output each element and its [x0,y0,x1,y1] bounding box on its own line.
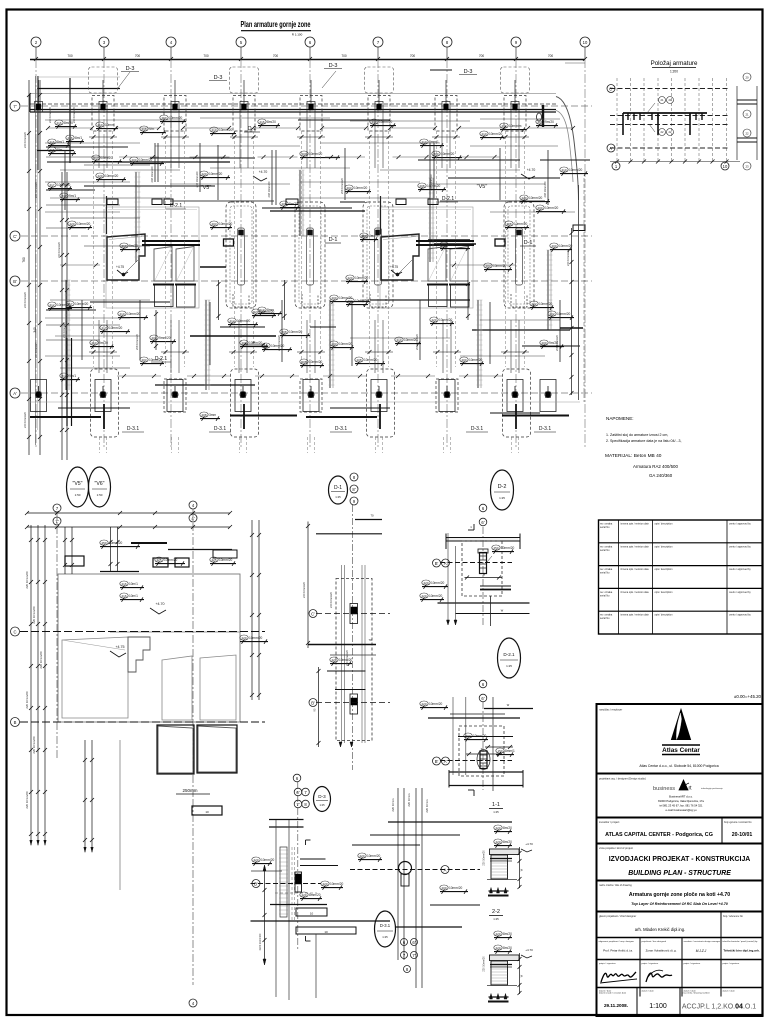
svg-text:opis / description: opis / description [655,568,674,571]
svg-text:1:25: 1:25 [335,495,341,499]
svg-text:10mm/20: 10mm/20 [57,303,71,307]
svg-text:Plan armature gornje zone: Plan armature gornje zone [241,19,311,29]
svg-text:8m/20: 8m/20 [267,120,276,124]
svg-text:overio / approved by: overio / approved by [729,523,751,526]
svg-text:208 10mm/20: 208 10mm/20 [195,171,199,187]
svg-text:odgovorni projektant / resp. d: odgovorni projektant / resp. designer [599,940,635,943]
svg-text:1-1: 1-1 [492,802,500,808]
D-2.1 axis dash horizontal [440,760,512,762]
rebar callout 202 10mm/20 [548,311,556,316]
rebar callout 220 10mm/20 [520,195,528,200]
svg-text:208 10mm/20: 208 10mm/20 [267,181,271,197]
vertical rebar strip h [299,170,301,236]
D-3 detail circle [314,787,331,812]
svg-text:IZVODJACKI PROJEKAT - KONSTRUK: IZVODJACKI PROJEKAT - KONSTRUKCIJA [609,856,751,863]
svg-text:10mm/20: 10mm/20 [219,222,233,226]
svg-text:B: B [14,720,17,725]
svg-text:8m/20: 8m/20 [503,932,512,936]
vs detail small rects top [65,556,84,566]
svg-text:10: 10 [310,912,314,916]
rebar callout 200 10mm/20 [536,205,544,210]
svg-text:glavni projektant / chief desi: glavni projektant / chief designer [599,914,636,918]
rebar callout 217 10mm/20 [48,182,56,187]
svg-text:"V5": "V5" [72,481,82,487]
svg-text:220 10mm/20: 220 10mm/20 [57,242,61,258]
bottom row capitals dashed [91,369,119,437]
vertical rebar bars with rotated labels [154,143,156,182]
rebar callout 210 10mm/20 [370,119,378,124]
D-3 axis dash horizontal [251,883,322,885]
D-3 rect w label [296,908,327,916]
svg-text:Atlas Centar: Atlas Centar [662,747,700,754]
D-3.1 keyhole column [399,862,412,875]
svg-text:29.11.2008.: 29.11.2008. [604,1003,628,1008]
D-1 left axis circles [309,610,317,618]
D-3 vertical dim line [264,866,266,964]
vs detail axis circle 4 top [189,501,197,509]
D-3 hatched bar [280,847,287,917]
rebar callout 200 10mm/20 [130,157,138,162]
D-3 axis circle D' [252,880,260,888]
svg-text:NAPOMENE:: NAPOMENE: [606,416,634,421]
D-1 detail axis line vertical [352,505,354,770]
svg-text:220 10mm/20: 220 10mm/20 [23,292,27,308]
svg-text:1:25: 1:25 [319,803,325,807]
polozaj position circles top [659,97,666,104]
svg-text:D-3: D-3 [329,63,338,69]
rebar callout 206 10mm/20 [262,343,270,348]
svg-text:D': D' [254,881,258,886]
svg-text:10: 10 [723,164,728,169]
svg-text:10mm/20: 10mm/20 [539,302,553,306]
svg-text:1:25: 1:25 [499,496,505,500]
D-3 section cut mark bottom [306,940,311,942]
left axis circle 7' [10,101,20,111]
svg-text:220 10mm/20: 220 10mm/20 [345,650,349,666]
svg-text:tehnička kontrola / proof (con: tehnička kontrola / proof (control) by [723,940,759,943]
svg-text:8m/1: 8m/1 [57,140,64,144]
svg-text:23: 23 [745,164,749,168]
stair lower rect B left [177,285,196,308]
vs axis circle C [11,627,20,636]
svg-text:700: 700 [203,54,209,58]
svg-text:8': 8' [352,487,355,492]
svg-text:220 10mm/20: 220 10mm/20 [34,342,38,358]
rebar callout 216 10m/1 [120,581,128,586]
top axis circles 2-10 [31,37,41,47]
stair big flight quad left [107,234,145,280]
D-2 detail circle [491,470,514,510]
rebar callout 210 10mm/20 [395,337,403,342]
rebar callout 200 10mm/20 [460,357,468,362]
D-2.1 section cut mark 1 bottom [468,789,474,791]
svg-text:10: 10 [583,40,588,45]
stair zone light outline left [106,207,199,308]
rebar callout 202 10mm/20 [440,242,448,247]
svg-text:1:25: 1:25 [382,935,388,939]
svg-text:220 10mm/20: 220 10mm/20 [483,956,486,972]
svg-text:1:100: 1:100 [649,1003,667,1010]
svg-text:10mm/20: 10mm/20 [473,734,487,738]
stair thick bars right [416,240,474,242]
svg-text:D-1: D-1 [329,237,338,243]
D-2.1 top bars [428,717,520,719]
svg-text:208 10mm/20: 208 10mm/20 [135,334,139,350]
svg-text:10mm/20: 10mm/20 [501,546,515,550]
stair flight mid right [428,247,446,282]
svg-text:e-mail businessart@cg.yu: e-mail businessart@cg.yu [666,808,697,812]
svg-text:220 10mm/20: 220 10mm/20 [329,592,333,608]
stair thick bars left [142,240,200,242]
polozaj axis circle A' [607,144,615,152]
vertical axis dash-dot grid lines [35,59,37,448]
svg-text:izmena opis / revision date: izmena opis / revision date [621,545,650,548]
D-2 verticals [447,533,449,622]
svg-text:10m/1: 10m/1 [129,594,138,598]
svg-text:8m/20: 8m/20 [503,840,512,844]
svg-text:10mm/20: 10mm/20 [489,132,503,136]
rebar callout 150 8mm/1 [496,748,504,753]
section 1-1 flange [490,849,520,855]
D-2 section cut mark 1 top [468,529,474,531]
title block row investor [597,843,763,845]
svg-text:10mm/20: 10mm/20 [431,581,445,585]
svg-text:3mm: 3mm [209,413,216,417]
slab bottom light line [30,401,580,403]
svg-text:Armatura gornje zone ploče na: Armatura gornje zone ploče na koti +4.70 [629,892,730,898]
svg-text:20: 20 [745,75,749,79]
svg-text:D-1: D-1 [524,240,533,246]
D-1 inner strip verticals [341,565,343,743]
rebar callout 217 9m/1 [60,193,68,198]
svg-text:"V5": "V5" [477,184,488,190]
left dimension chains [28,80,30,455]
svg-text:340: 340 [33,327,37,333]
svg-text:9m/20: 9m/20 [549,341,558,345]
svg-text:broj / reference No: broj / reference No [723,915,743,918]
signature scribble 1 [601,972,636,982]
svg-text:opis / description: opis / description [655,614,674,617]
svg-text:tehnologija poslovanja: tehnologija poslovanja [701,787,723,790]
svg-text:10mm/20: 10mm/20 [127,312,141,316]
svg-text:9m/1: 9m/1 [69,194,76,198]
svg-text:overio / approved by: overio / approved by [729,614,751,617]
svg-text:10mm/20: 10mm/20 [109,326,123,330]
svg-text:D-3: D-3 [214,75,223,81]
svg-text:1:50: 1:50 [75,493,81,497]
vs axis C dash line [20,631,265,633]
svg-text:10mm/20: 10mm/20 [330,882,344,886]
svg-text:1:25: 1:25 [493,917,499,921]
rebar callout 210 10mm/20 [560,167,568,172]
svg-text:serial No: serial No [600,617,610,620]
svg-text:10m/1: 10m/1 [129,582,138,586]
svg-text:220 10mm/20: 220 10mm/20 [483,850,486,866]
polozaj beam strip [623,112,707,114]
stair zone light outline right [380,207,473,308]
svg-text:10mm/20: 10mm/20 [57,183,71,187]
svg-text:C': C' [311,611,315,616]
D-1 detail top dims [355,519,382,521]
svg-text:70: 70 [368,638,372,642]
long slab reinforcement lines upper band [45,119,185,121]
D-2.1 mid bar [458,736,513,738]
svg-text:D-3.1: D-3.1 [380,923,391,928]
rebar callout 220 10mm/20 [252,857,260,862]
svg-text:8mm/1: 8mm/1 [505,749,515,753]
rebar callout 212 10mm/20 [228,318,236,323]
rebar callout 210 10mm [96,122,104,127]
svg-text:250mm: 250mm [182,788,197,793]
rebar callout 250 10mm/20 [100,540,108,545]
svg-text:220 10mm/20: 220 10mm/20 [25,791,29,809]
small bracket rects mid [224,239,234,246]
rebar callout 208 10mm/20 [355,357,363,362]
D-3.1 axis circle A [441,866,449,874]
stair flight right right [450,247,468,282]
svg-text:10mm/20: 10mm/20 [439,318,453,322]
svg-text:700: 700 [548,54,554,58]
svg-text:D-2.1: D-2.1 [503,652,515,657]
svg-text:"V5": "V5" [201,185,212,191]
beam end callout mark [537,113,542,121]
vertical rebar strip b [205,300,207,390]
rebar callout 208 10mm/20 [505,221,513,226]
vs detail trapezoid right [200,655,236,720]
left end beam widening [37,88,120,90]
svg-text:projektant org. / designer (De: projektant org. / designer (Design studi… [599,777,646,781]
svg-text:datum / date: datum / date [642,990,655,993]
polozaj axis circle 10 [721,162,729,170]
svg-text:1:50: 1:50 [97,493,103,497]
vs detail axis circle 7 top [53,504,61,512]
svg-text:10mm/20: 10mm/20 [149,358,163,362]
svg-text:izmena opis / revision date: izmena opis / revision date [621,614,650,617]
rebar callout 216 9/m [140,126,148,131]
rebar callout 220 10mm/20 [346,275,354,280]
svg-text:10mm/20: 10mm/20 [493,264,507,268]
top dimension line [30,59,585,61]
section 1-1 stem [491,855,508,879]
svg-text:+4.75: +4.75 [116,265,124,269]
right edge dim line top [565,62,585,64]
small slab openings [107,199,118,205]
vs axis B dash line [20,721,265,723]
section 1-1 bottom bars [489,890,509,892]
svg-text:"V6": "V6" [94,481,104,487]
vs detail vertical axis dash lines [56,512,58,760]
svg-text:B': B' [311,700,315,705]
rebar bars horizontal [120,161,230,163]
vs detail dark bars upper [100,571,139,573]
svg-text:izmena opis / revision date: izmena opis / revision date [621,523,650,526]
title block row designer [597,817,763,819]
stair lower rect A right [429,285,448,307]
svg-text:20-10/01: 20-10/01 [732,832,753,838]
svg-text:Tehnički biro dipl.ing.arh.: Tehnički biro dipl.ing.arh. [723,949,759,953]
svg-text:7': 7' [412,953,415,958]
rebar callout 200 10mm/20 [432,151,440,156]
beam end thick bar [542,105,544,127]
svg-text:business: business [653,786,675,792]
polozaj position circles bottom [659,129,666,136]
svg-text:10mm/20: 10mm/20 [367,854,381,858]
svg-text:izmena opis / revision date: izmena opis / revision date [621,591,650,594]
svg-text:10mm/20: 10mm/20 [105,174,119,178]
svg-text:700: 700 [273,54,279,58]
vs detail top dimension lines [27,512,230,514]
left cluster dense lines [46,146,128,148]
rebar callout 220 10mm/20 [420,593,428,598]
svg-text:Atlas Centar d.o.o., ul. Slobo: Atlas Centar d.o.o., ul. Slobode 54, 810… [639,764,718,768]
svg-text:saradnici / assistants design: saradnici / assistants design manager [684,940,721,943]
top row capitals dashed [92,96,114,132]
stair flight mid left [154,247,172,282]
svg-text:1. Zaštitni sloj do armature i: 1. Zaštitni sloj do armature iznosi 2 cm… [606,433,668,437]
D-1 axis dash C' [316,613,390,615]
rebar callout 216 8m/1 [66,135,74,140]
D-1 vertical dim left upper [307,522,309,649]
D-1 vertical dim left lower [318,667,320,747]
bottom row columns [31,380,47,412]
D-2 small circles [479,504,487,512]
svg-text:+4.70: +4.70 [525,948,533,952]
svg-text:potpis / signature: potpis / signature [642,962,659,965]
D-2.1 vertical axis dash [482,702,484,790]
svg-text:2-2: 2-2 [492,909,500,915]
svg-text:220 10mm/20: 220 10mm/20 [62,322,66,338]
right edge thick bar [560,327,583,329]
left axis circle A' [10,388,20,398]
rebar callout 216 8/m [48,147,56,152]
title block row employer logo [597,773,763,775]
svg-text:arh. Mladen Krekić dipl.ing.: arh. Mladen Krekić dipl.ing. [635,927,686,932]
section 2-2 stem [491,961,508,985]
vertical rebar strip d [429,178,431,262]
svg-text:208 10mm/20: 208 10mm/20 [543,181,547,197]
rebar callout 220 10mm/20 [68,221,76,226]
rebar callout 200 10mm/20 [240,340,248,345]
svg-text:+4.70: +4.70 [259,170,268,174]
svg-text:2. Specifikacija armature data: 2. Specifikacija armature data je na lis… [606,439,682,443]
svg-text:M.J.Z.J: M.J.Z.J [696,949,707,953]
svg-text:208 10mm/20: 208 10mm/20 [277,335,281,351]
horizontal axis dash lines [21,105,592,107]
svg-text:Top Layer Of Reinforcement Of: Top Layer Of Reinforcement Of RC Slab On… [631,902,729,906]
svg-text:10mm/20: 10mm/20 [261,858,275,862]
svg-text:8m/20: 8m/20 [289,202,298,206]
rebar callout 203 9m/20 [536,119,544,124]
svg-text:70: 70 [370,514,374,518]
svg-text:10mm/20: 10mm/20 [529,196,543,200]
D-1 detail column top [350,604,358,624]
svg-text:8m/20: 8m/20 [64,121,73,125]
title block row chief designer [597,937,763,939]
polozaj grid verticals [616,78,618,162]
svg-text:220 10mm/20: 220 10mm/20 [25,571,29,589]
svg-text:investitor / project: investitor / project [599,820,620,824]
D-2.1 ladder column [477,750,490,770]
svg-text:208 10mm/20: 208 10mm/20 [429,174,433,190]
svg-text:10mm/20: 10mm/20 [364,358,378,362]
vs lower trapezoids below axis B [158,726,193,773]
top beam band [30,94,556,113]
svg-text:D-3.1: D-3.1 [127,426,139,432]
svg-text:C: C [13,629,16,634]
svg-text:8/m: 8/m [57,148,63,152]
svg-text:D-2.1: D-2.1 [170,203,182,209]
rebar callout 220 8mm/20 [300,892,308,897]
dim rows under beam per bay [48,127,92,129]
svg-text:220 10mm: 220 10mm [425,799,429,813]
svg-text:opis / description: opis / description [655,545,674,548]
rebar callout 212 9m/1 [60,373,68,378]
svg-text:9mm/20: 9mm/20 [159,336,171,340]
svg-text:opis / description: opis / description [655,591,674,594]
svg-text:serial No: serial No [600,549,610,552]
svg-text:serial No: serial No [600,572,610,575]
svg-text:C': C' [13,234,17,239]
vertical rebar strip e [547,250,549,330]
svg-text:MATERIJAL: Beton MB 40: MATERIJAL: Beton MB 40 [605,453,662,459]
svg-text:10mm/20: 10mm/20 [219,558,233,562]
D-1 bottom arrows [339,742,342,747]
svg-text:220 10mm/20: 220 10mm/20 [34,182,38,198]
rebar callout 200 10mm/20 [550,243,558,248]
polozaj bottom dimension line [610,161,740,163]
svg-text:10mm/20: 10mm/20 [289,330,303,334]
svg-text:D-3.1: D-3.1 [539,426,551,432]
svg-text:Prof. Petar Anžić d.i.a.: Prof. Petar Anžić d.i.a. [603,949,633,953]
vs detail inner lines [110,631,240,633]
svg-text:700: 700 [410,54,416,58]
D-3.1 verticals [397,788,399,960]
svg-text:220 10mm/20: 220 10mm/20 [32,606,36,624]
svg-text:10mm/20: 10mm/20 [261,310,275,314]
svg-text:+4.70: +4.70 [525,842,533,846]
svg-text:220 10mm/20: 220 10mm/20 [302,582,306,598]
horizontal dim lines between capitals row1 [119,156,159,158]
rebar callout 203 10mm/20 [345,185,353,190]
stair vertical bar above right [380,196,382,234]
D-3 dashed line below [275,892,317,894]
rebar callout 220 10mm/20 [420,701,428,706]
svg-text:2220 10mm/20: 2220 10mm/20 [259,933,262,950]
D-3 left verticals [275,820,277,997]
rebar callout 210 10mm/20 [210,127,218,132]
vs detail mid tick pair upper [110,527,112,572]
rebar callout 210 10mm/20 [480,131,488,136]
svg-text:D-3: D-3 [126,66,135,72]
svg-text:potpis / signature: potpis / signature [723,962,740,965]
title block signature row [597,987,763,989]
bottom thick bars at columns [30,416,101,418]
dim rows between bottom capitals [117,375,161,377]
stair vertical bar above left [106,196,108,234]
rebar callout 216 8m/20 [258,119,266,124]
svg-text:9m/20: 9m/20 [545,120,554,124]
dimension row mid plan [60,264,100,266]
svg-text:D-3.1: D-3.1 [214,426,226,432]
section 2-2 flange [490,955,520,961]
section 1-1 right dim [519,847,521,888]
svg-text:10mm/20: 10mm/20 [209,172,223,176]
svg-text:B': B' [435,759,439,764]
vertical rebar strip f [65,280,67,390]
svg-text:D-3.1: D-3.1 [335,426,347,432]
svg-text:208 10mm/20: 208 10mm/20 [340,178,344,194]
D-1 small circles right [350,473,358,481]
